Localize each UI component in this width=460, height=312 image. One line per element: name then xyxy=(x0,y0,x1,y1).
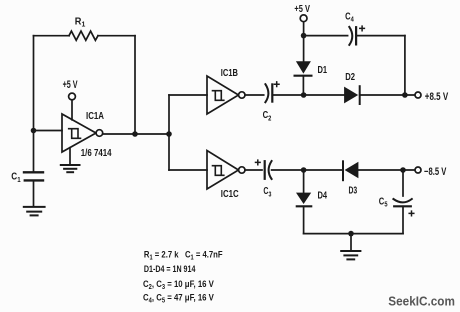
wire D3 to -8.5V terminal xyxy=(358,169,414,171)
wire IC1B output xyxy=(245,94,264,96)
node ground junction xyxy=(348,231,354,237)
wire to IC1B input xyxy=(169,94,207,96)
wire R1 top-right segment xyxy=(98,35,135,37)
ground bottom right xyxy=(341,234,360,260)
svg-text:R1: R1 xyxy=(75,16,86,28)
svg-text:R1 = 2.7 k C1 = 4.7nF: R1 = 2.7 k C1 = 4.7nF xyxy=(144,250,223,262)
svg-text:C2, C3 = 10 μF, 16 V: C2, C3 = 10 μF, 16 V xyxy=(143,279,214,291)
svg-text:IC1B: IC1B xyxy=(221,68,238,79)
svg-text:+5 V: +5 V xyxy=(63,79,78,91)
wire IC1A output xyxy=(103,133,169,135)
svg-text:C2: C2 xyxy=(263,110,272,122)
node terminal -8.5V xyxy=(415,166,447,178)
wire corner down to output rail xyxy=(404,36,406,95)
svg-text:D2: D2 xyxy=(345,72,355,83)
wire IC1C output xyxy=(245,169,262,171)
wire branch down xyxy=(168,134,170,170)
node D4 junction xyxy=(301,167,307,173)
node terminal +8.5V xyxy=(415,91,449,103)
power +5V at IC1A xyxy=(63,79,78,120)
resistor R1 xyxy=(69,16,98,40)
wire left rail down xyxy=(33,36,35,131)
node junction left input xyxy=(31,128,37,134)
wire left rail to C1 xyxy=(33,131,35,173)
svg-text:C4: C4 xyxy=(345,11,354,23)
ground below C1 xyxy=(24,207,45,216)
node output junction top xyxy=(402,92,408,98)
wire D4 to bottom rail xyxy=(303,206,305,233)
capacitor C5 xyxy=(379,196,414,215)
svg-text:C1: C1 xyxy=(11,172,20,184)
wire C5 top xyxy=(402,170,404,196)
svg-text:IC1C: IC1C xyxy=(221,189,239,200)
wire R1 top-left segment xyxy=(34,35,70,37)
svg-text:−8.5 V: −8.5 V xyxy=(424,166,447,178)
wire bottom rail xyxy=(304,233,403,235)
op-amp U2 inverter IC1B xyxy=(207,68,245,114)
power +5V top right xyxy=(294,3,310,61)
node +5V branch junction xyxy=(301,33,307,39)
wire C5 bottom xyxy=(402,206,404,233)
wire D1 node to D2 xyxy=(304,94,345,96)
svg-text:+5 V: +5 V xyxy=(294,3,310,15)
svg-text:C5: C5 xyxy=(379,196,388,208)
wire C1 to ground xyxy=(33,180,35,206)
capacitor C4 xyxy=(345,11,364,45)
node D1 junction xyxy=(301,92,307,98)
svg-text:C4, C5 = 47 μF, 16 V: C4, C5 = 47 μF, 16 V xyxy=(143,293,214,305)
diode D3 xyxy=(343,161,358,196)
wire +5V node to C4 xyxy=(304,35,348,37)
svg-text:D1-D4 = 1N 914: D1-D4 = 1N 914 xyxy=(144,264,196,275)
svg-text:D1: D1 xyxy=(318,65,328,76)
node output junction bottom xyxy=(400,167,406,173)
capacitor C1 xyxy=(11,172,43,184)
capacitor C2 xyxy=(263,82,279,122)
wire C4 to corner xyxy=(356,35,405,37)
svg-text:C3: C3 xyxy=(263,186,271,198)
wire D2 to +8.5V terminal xyxy=(360,94,415,96)
wire to IC1C input xyxy=(169,169,207,171)
wire feedback rail xyxy=(134,36,136,134)
node feedback junction xyxy=(132,131,138,137)
wire branch up xyxy=(168,95,170,134)
wire C2 to node xyxy=(272,94,303,96)
svg-text:SeekIC.com: SeekIC.com xyxy=(388,294,455,309)
diode D2 xyxy=(344,72,360,104)
wire IC1A input xyxy=(34,130,63,132)
wire node to D3 xyxy=(304,169,343,171)
ground at IC1A xyxy=(61,148,80,173)
svg-text:+8.5 V: +8.5 V xyxy=(425,91,449,103)
capacitor C3 xyxy=(256,160,272,198)
svg-text:1/6 7414: 1/6 7414 xyxy=(81,148,112,159)
svg-text:D4: D4 xyxy=(318,191,328,202)
op-amp U3 inverter IC1C xyxy=(207,151,245,200)
svg-text:D3: D3 xyxy=(349,186,358,197)
wire C3 to node xyxy=(272,169,304,171)
diode D4 xyxy=(296,170,327,206)
op-amp U1 inverter IC1A xyxy=(62,111,112,159)
svg-text:IC1A: IC1A xyxy=(86,111,104,122)
node branch junction xyxy=(166,131,172,137)
diode D1 xyxy=(295,61,328,95)
